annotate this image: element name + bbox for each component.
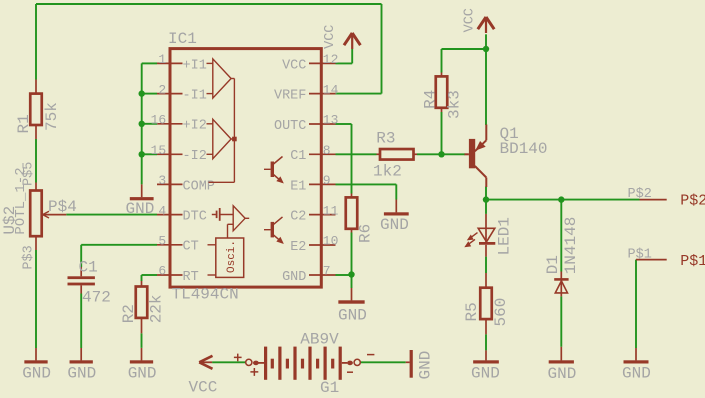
svg-text:LED1: LED1 <box>495 217 513 255</box>
svg-text:R3: R3 <box>376 130 395 148</box>
svg-text:OUTC: OUTC <box>274 119 306 134</box>
svg-text:P$1: P$1 <box>680 253 705 270</box>
svg-text:COMP: COMP <box>183 179 215 194</box>
svg-text:E1: E1 <box>290 179 306 194</box>
svg-text:15: 15 <box>151 143 167 158</box>
svg-text:75k: 75k <box>43 102 61 131</box>
svg-text:-I1: -I1 <box>183 89 207 104</box>
svg-text:TL494CN: TL494CN <box>172 285 239 303</box>
svg-text:+I2: +I2 <box>183 119 207 134</box>
svg-text:14: 14 <box>323 82 339 97</box>
svg-text:VCC: VCC <box>189 379 218 397</box>
svg-text:CT: CT <box>183 240 199 255</box>
svg-text:AB9V: AB9V <box>300 330 339 348</box>
svg-text:10: 10 <box>323 234 339 249</box>
svg-text:3: 3 <box>158 173 166 188</box>
svg-text:22k: 22k <box>148 294 166 323</box>
svg-text:11: 11 <box>323 203 339 218</box>
svg-text:GND: GND <box>22 364 51 382</box>
svg-text:GND: GND <box>548 365 577 383</box>
svg-text:VCC: VCC <box>282 58 306 73</box>
svg-text:3k3: 3k3 <box>446 90 464 119</box>
svg-text:C2: C2 <box>290 210 306 225</box>
svg-text:GND: GND <box>282 270 306 285</box>
svg-text:VCC: VCC <box>463 8 478 32</box>
svg-text:P$1: P$1 <box>628 248 652 263</box>
svg-text:GND: GND <box>380 216 409 234</box>
svg-text:-I2: -I2 <box>183 149 207 164</box>
svg-text:VREF: VREF <box>274 89 306 104</box>
svg-text:9: 9 <box>323 173 331 188</box>
svg-text:GND: GND <box>622 364 651 382</box>
svg-text:560: 560 <box>492 298 510 327</box>
svg-text:R6: R6 <box>357 224 375 243</box>
svg-text:C1: C1 <box>290 149 306 164</box>
svg-text:GND: GND <box>126 200 155 218</box>
svg-text:P$5: P$5 <box>22 162 37 186</box>
svg-text:16: 16 <box>151 113 167 128</box>
svg-text:4: 4 <box>158 203 166 218</box>
svg-text:13: 13 <box>323 113 339 128</box>
svg-text:5: 5 <box>158 234 166 249</box>
svg-text:1: 1 <box>158 52 166 67</box>
svg-text:C1: C1 <box>79 259 98 277</box>
svg-text:G1: G1 <box>320 379 339 397</box>
svg-text:GND: GND <box>67 364 96 382</box>
svg-text:R4: R4 <box>422 90 440 109</box>
svg-text:BD140: BD140 <box>500 140 548 158</box>
svg-text:P$4: P$4 <box>48 198 77 216</box>
svg-text:DTC: DTC <box>183 210 207 225</box>
svg-text:GND: GND <box>128 364 157 382</box>
svg-text:GND: GND <box>471 364 500 382</box>
svg-text:GND: GND <box>417 351 435 380</box>
svg-text:E2: E2 <box>290 240 306 255</box>
svg-text:P$2: P$2 <box>680 193 705 210</box>
svg-text:8: 8 <box>323 143 331 158</box>
svg-text:R2: R2 <box>120 304 138 323</box>
svg-text:6: 6 <box>158 264 166 279</box>
svg-text:Osci.: Osci. <box>226 240 238 273</box>
svg-text:1N4148: 1N4148 <box>562 217 580 275</box>
svg-text:12: 12 <box>323 52 339 67</box>
svg-text:7: 7 <box>323 264 331 279</box>
svg-text:1k2: 1k2 <box>373 163 402 181</box>
svg-text:2: 2 <box>158 82 166 97</box>
svg-text:D1: D1 <box>544 255 562 274</box>
svg-text:R1: R1 <box>15 114 33 133</box>
svg-text:GND: GND <box>338 307 367 325</box>
svg-text:+I1: +I1 <box>183 58 207 73</box>
svg-text:IC1: IC1 <box>168 30 197 48</box>
svg-text:RT: RT <box>183 270 199 285</box>
svg-text:P$2: P$2 <box>628 187 652 202</box>
svg-text:472: 472 <box>82 289 111 307</box>
svg-text:P$3: P$3 <box>22 245 37 269</box>
svg-text:VCC: VCC <box>323 25 338 49</box>
svg-text:R5: R5 <box>463 302 481 321</box>
